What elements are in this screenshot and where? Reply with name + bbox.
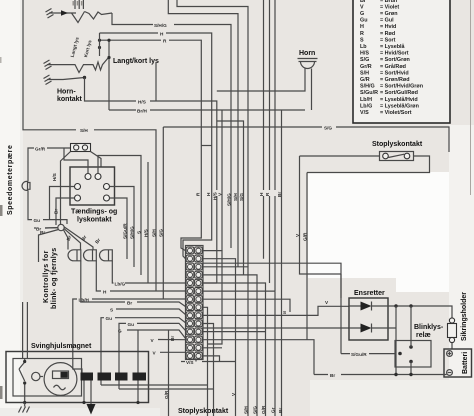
svg-text:= Violet: = Violet: [380, 4, 399, 10]
wire Br/H from dip switch common: [109, 109, 305, 111]
wire Br short: [34, 227, 58, 229]
bulb label remnants: [73, 1, 81, 6]
ground headlamp: [46, 9, 56, 19]
svg-text:H/S: H/S: [360, 51, 369, 57]
white region bottom right: [308, 172, 465, 292]
magneto switch: [19, 359, 25, 404]
wire rectifier lower output down: [395, 306, 397, 375]
svg-text:= Sort/Hvid: = Sort/Hvid: [380, 70, 409, 76]
svg-text:H/S: H/S: [138, 100, 146, 105]
coil 2: [98, 373, 112, 381]
svg-text:Lb/G: Lb/G: [360, 103, 372, 109]
bundle labels rotated at mid height: [196, 192, 283, 206]
svg-text:Br: Br: [277, 192, 282, 197]
filament zigzag: [85, 12, 113, 20]
svg-text:Blinklys-: Blinklys-: [414, 324, 444, 331]
horn wire 1: [217, 69, 305, 92]
wire vertical from top edge x275: [274, 0, 276, 291]
wire Lb/H magneto coil1: [73, 299, 186, 373]
battery minus terminal: [447, 370, 453, 376]
wire top terminal 2 up-right to S bundle: [98, 156, 141, 276]
terminals left: [75, 184, 81, 190]
svg-text:= Gul: = Gul: [380, 18, 394, 24]
wire relay top to rail: [410, 306, 412, 347]
svg-text:S/H: S/H: [80, 128, 88, 133]
svg-text:S/Gu/R: S/Gu/R: [122, 223, 127, 239]
svg-text:Br/H: Br/H: [137, 109, 148, 114]
svg-text:G/R: G/R: [261, 405, 266, 414]
svg-text:V/S: V/S: [360, 110, 369, 116]
svg-text:S/Gu/R: S/Gu/R: [351, 352, 367, 357]
battery box: [444, 349, 472, 377]
connector arrow on headlamp wire: [61, 10, 68, 16]
svg-text:S/H/G: S/H/G: [360, 84, 375, 90]
svg-text:Br: Br: [40, 230, 45, 235]
small circle contact: [32, 372, 40, 380]
magneto inner box: [13, 359, 82, 397]
multi-pin connector strip body: [186, 246, 204, 360]
terminals top: [85, 174, 91, 180]
wire vertical from top edge x269.5: [269, 0, 271, 283]
svg-text:Br: Br: [170, 336, 175, 341]
svg-text:S/Gu/R: S/Gu/R: [360, 90, 378, 96]
speedometer bulb: [22, 181, 30, 190]
headlamp bulb H4 filaments: [72, 12, 85, 23]
wire stop switch return G/R: [307, 156, 430, 173]
page edge line right: [470, 0, 472, 195]
pilot lamp 2: [84, 250, 97, 261]
svg-text:Batteri: Batteri: [462, 352, 469, 374]
svg-text:S/H: S/H: [233, 193, 238, 201]
ignition switch box Taendings- og lyskontakt: [70, 167, 115, 205]
svg-text:Kontrollys for: Kontrollys for: [43, 250, 50, 303]
wire left terminal 2: [56, 198, 75, 225]
svg-text:V: V: [360, 4, 364, 10]
svg-text:S/G: S/G: [239, 193, 244, 201]
svg-text:S/H: S/H: [360, 70, 369, 76]
svg-text:Gu: Gu: [106, 316, 113, 321]
svg-text:S: S: [360, 37, 364, 43]
wire S/G long: [163, 127, 449, 152]
bulb common lead down to dip switch: [99, 33, 101, 56]
wire rectifier output rail: [388, 306, 452, 318]
svg-text:V/S: V/S: [186, 360, 194, 365]
horn switch blade: [52, 78, 85, 80]
svg-text:= Sort/Grøn: = Sort/Grøn: [380, 57, 410, 63]
wire G/R vertical long: [169, 173, 308, 416]
svg-text:= Sort/Hvid/Grøn: = Sort/Hvid/Grøn: [380, 84, 423, 90]
row7 out: [202, 299, 290, 312]
svg-text:G: G: [360, 11, 364, 17]
wire right terminal 2 to S/Gu/R bundle: [110, 198, 128, 259]
row1 out: [202, 251, 222, 344]
connector pin circles: [188, 248, 201, 358]
hub rays to pilot lamps: [64, 227, 94, 250]
magneto rect black/white: [53, 371, 69, 379]
svg-text:= Hvid: = Hvid: [380, 24, 396, 30]
legend box: [353, 0, 450, 123]
row12 out Br: [158, 340, 314, 375]
hub ray left: [45, 227, 58, 229]
svg-text:relæ: relæ: [416, 332, 431, 339]
svg-text:Gr/R: Gr/R: [360, 64, 372, 70]
headlamp bulb leads to top edge: [75, 0, 83, 9]
wire bundle into connector top rows: [183, 101, 217, 283]
wire V feed to stop switch: [300, 155, 380, 157]
row5 out: [202, 283, 265, 416]
wire diagonal connector to switch box: [91, 152, 102, 168]
svg-text:= Hvid/Sort: = Hvid/Sort: [380, 51, 409, 57]
svg-text:S/G: S/G: [360, 57, 369, 63]
svg-text:Gu: Gu: [128, 322, 135, 327]
dot dip switch pivot: [107, 56, 110, 59]
wire bulb to Gu: [28, 190, 67, 224]
wire R into connector row1: [181, 235, 201, 251]
svg-text:Tændings- og: Tændings- og: [71, 209, 117, 216]
svg-text:S: S: [136, 231, 141, 234]
junction dots on bulb lead: [98, 39, 101, 42]
wire H from dip switch: [100, 33, 212, 101]
wire switch box right edge: [155, 63, 157, 101]
wire fuse to battery: [451, 343, 453, 349]
row11 out: [202, 331, 265, 333]
hub ray lower-left: [39, 230, 59, 263]
jog wire: [217, 121, 244, 275]
wire V vertical long: [300, 156, 342, 274]
svg-text:R: R: [360, 31, 364, 37]
svg-text:= Sort: = Sort: [380, 37, 396, 43]
ground dip switch: [44, 60, 53, 70]
wire S to connector: [116, 309, 187, 315]
diode 1: [361, 302, 372, 311]
wire right terminal 1 to S/H/G bundle: [110, 187, 135, 268]
svg-text:H/S: H/S: [52, 173, 57, 181]
wire Gu coil2 to connector: [101, 318, 187, 373]
wire coil2 bus right: [101, 385, 208, 416]
wire V/S below connector: [181, 360, 212, 362]
battery plus terminal: [447, 351, 453, 357]
svg-text:S: S: [283, 310, 286, 315]
svg-text:Ensretter: Ensretter: [354, 290, 385, 297]
wire long to rectifier corner: [202, 263, 341, 298]
connector Gr/R two-pole: [71, 144, 91, 152]
svg-text:Br: Br: [330, 373, 335, 378]
output arrow down: [90, 381, 92, 406]
horn wire 2: [311, 69, 313, 111]
flasher relay box: [395, 341, 431, 368]
svg-text:G: G: [118, 328, 122, 333]
svg-text:Speedometerpære: Speedometerpære: [7, 145, 14, 215]
svg-text:G/R: G/R: [302, 232, 307, 241]
svg-text:H: H: [360, 24, 364, 30]
rectifier box: [349, 298, 388, 340]
wire nested corner 2 from top: [177, 0, 248, 267]
svg-text:G/R: G/R: [360, 77, 370, 83]
svg-text:S/G: S/G: [159, 229, 164, 237]
dip switch common wire down to Br/H: [108, 40, 110, 110]
coil 4: [133, 373, 147, 381]
wire left terminal 1: [50, 187, 75, 220]
wire vertical from top edge x263.5: [263, 0, 265, 259]
svg-text:Lb/H: Lb/H: [360, 97, 372, 103]
svg-text:S/H/G: S/H/G: [154, 23, 167, 28]
svg-text:= Lyseblå/Hvid: = Lyseblå/Hvid: [380, 96, 418, 103]
svg-text:Gr/R: Gr/R: [35, 146, 46, 151]
wire top terminal 1 up-left: [64, 148, 88, 174]
svg-text:= Lyseblå: = Lyseblå: [380, 43, 406, 50]
coil 3: [115, 373, 128, 381]
wire R from dip switch: [100, 40, 202, 235]
svg-text:S/H/G: S/H/G: [227, 193, 232, 206]
wire coil3 bus right: [119, 389, 214, 416]
row4 out: [202, 275, 257, 416]
dot horn switch contact: [83, 76, 86, 79]
svg-text:= Grøn: = Grøn: [380, 11, 398, 17]
terminals right: [104, 184, 110, 190]
wire Br bottom rail to battery: [314, 374, 447, 376]
svg-text:Lb: Lb: [360, 44, 367, 50]
svg-text:= Lyseblå/Grøn: = Lyseblå/Grøn: [380, 102, 419, 109]
sine symbol: [54, 385, 66, 390]
ground below magneto: [19, 403, 30, 413]
wire S/Gu/R to flasher relay: [341, 274, 395, 354]
short rung: [201, 145, 211, 147]
svg-text:Gr: Gr: [270, 407, 275, 413]
svg-text:Lb/G: Lb/G: [115, 282, 126, 287]
svg-text:S/H: S/H: [151, 229, 156, 237]
wire nested corner 1 from top: [168, 0, 238, 267]
wire S/H/G from headlamp: [112, 13, 231, 248]
svg-text:= Rød: = Rød: [380, 31, 395, 37]
svg-text:Horn-: Horn-: [57, 89, 76, 96]
junction hub: [58, 224, 64, 230]
wire Br lamp1 to connector: [81, 261, 187, 308]
wire Gu coil3 to connector: [119, 323, 187, 372]
row13 out: [160, 348, 222, 353]
svg-text:S: S: [110, 307, 113, 312]
wire G coil4 to connector: [127, 330, 187, 373]
svg-text:= Grøn/Rød: = Grøn/Rød: [380, 77, 410, 83]
svg-text:S/H: S/H: [243, 406, 248, 414]
svg-text:= Sort/Gul/Rød: = Sort/Gul/Rød: [380, 90, 418, 96]
legend rows: [360, 0, 423, 116]
svg-text:Br: Br: [278, 408, 283, 413]
svg-text:Langt/kort lys: Langt/kort lys: [113, 58, 159, 65]
row10 out: [202, 324, 213, 390]
diode 2: [361, 324, 372, 333]
row2 out: [202, 259, 235, 416]
svg-text:S/H/G: S/H/G: [130, 226, 135, 239]
ground horn switch: [44, 75, 53, 85]
pilot lamp 1: [68, 250, 81, 261]
connector cells left column: [186, 247, 194, 359]
svg-text:lyskontakt: lyskontakt: [77, 217, 112, 224]
svg-text:Gu: Gu: [360, 18, 368, 24]
wire bulb to Gr/R: [28, 148, 70, 182]
svg-text:blink- og fjernlys: blink- og fjernlys: [51, 248, 58, 309]
wire H lamp2 to connector: [96, 261, 186, 291]
row14 out stub: [202, 356, 219, 362]
svg-text:S/G: S/G: [324, 126, 332, 131]
edge smudge 1: [0, 205, 3, 216]
wire Lb/G lamp3 to connector: [112, 261, 186, 283]
row6 out: [202, 291, 275, 416]
svg-text:= Grå/Rød: = Grå/Rød: [380, 63, 406, 70]
wires into switch from above: [23, 302, 28, 359]
horn symbol: [298, 59, 318, 69]
flywheel magneto outer box: [6, 352, 149, 403]
row8 out: [202, 307, 207, 385]
row9 out S feed to rectifier: [202, 306, 349, 315]
svg-text:S/G: S/G: [252, 406, 257, 414]
svg-text:Svinghjulsmagnet: Svinghjulsmagnet: [31, 343, 92, 350]
svg-text:Stoplyskontakt: Stoplyskontakt: [372, 141, 423, 148]
coil bottom stubs to box bus: [84, 381, 138, 403]
wire S/H long top: [23, 0, 156, 291]
svg-text:Horn: Horn: [299, 50, 315, 57]
row3 out: [202, 267, 248, 416]
flywheel circle: [44, 363, 77, 396]
fuse holder: [449, 318, 454, 323]
left white page margin: [0, 0, 20, 416]
wire headlamp feed: [55, 12, 76, 14]
wire S/G down to connector: [162, 127, 164, 299]
svg-text:Br: Br: [127, 301, 132, 306]
svg-text:G/R: G/R: [164, 390, 169, 399]
stop light switch box: [380, 152, 414, 161]
coil 1: [81, 373, 94, 381]
svg-text:= Violet/Sort: = Violet/Sort: [380, 110, 412, 116]
svg-text:Stoplyskontakt: Stoplyskontakt: [178, 408, 229, 415]
connector cells right column: [195, 247, 203, 359]
wire relay bottom to Br rail: [410, 362, 412, 375]
bundle vertical Br right: [281, 110, 283, 416]
wire lower diode feed: [202, 327, 349, 329]
svg-text:Sikringsholder: Sikringsholder: [461, 292, 468, 341]
svg-text:kontakt: kontakt: [57, 96, 83, 103]
wire V/S continues right: [212, 361, 236, 363]
left bundle labels rotated: [122, 223, 163, 239]
wire H/S from horn switch: [85, 78, 217, 284]
wire diagonal connector to hub: [61, 152, 71, 226]
wire H/S left bundle: [147, 162, 149, 283]
dimmer switch contacts langt/kort: [52, 58, 109, 73]
bundle vertical V: [221, 110, 223, 251]
svg-text:Gu: Gu: [34, 218, 41, 223]
bottom wire labels rotated: [231, 392, 283, 414]
pilot lamp 3: [100, 250, 113, 261]
